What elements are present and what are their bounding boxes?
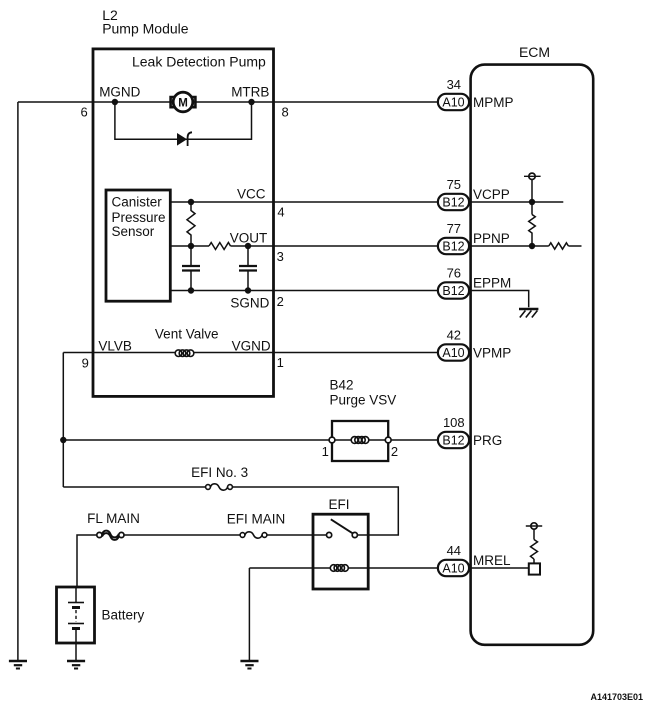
wire: EFI No.3 line — [63, 487, 398, 535]
svg-text:EFI: EFI — [328, 497, 349, 512]
svg-text:EFI MAIN: EFI MAIN — [227, 512, 286, 527]
node MGND junction — [112, 99, 118, 105]
svg-text:Sensor: Sensor — [112, 224, 155, 239]
ground G2 relay coil — [240, 661, 258, 669]
node SGND right junction — [245, 287, 251, 293]
fusible link FL MAIN — [97, 531, 124, 540]
node MTRB junction — [248, 99, 254, 105]
connector 44 A10 MREL — [438, 543, 511, 576]
resistor R4 PPNP series — [549, 243, 569, 249]
svg-text:B12: B12 — [442, 195, 464, 209]
capacitor C1 — [182, 246, 200, 291]
svg-text:B12: B12 — [442, 239, 464, 253]
wire: left ground riser — [17, 102, 19, 661]
wire: MREL internal — [471, 567, 529, 569]
svg-text:VCC: VCC — [237, 187, 266, 202]
node SGND left junction — [188, 287, 194, 293]
wire: battery feed to relay — [77, 535, 327, 587]
svg-text:A141703E01: A141703E01 — [590, 692, 643, 702]
node VCC junction — [188, 199, 194, 205]
wire: relay coil line — [249, 567, 438, 569]
power terminal at MREL — [526, 523, 542, 529]
relay EFI box — [313, 514, 368, 589]
svg-text:108: 108 — [443, 415, 465, 430]
wire VOUT — [170, 245, 438, 247]
wire VLVB-VGND vent valve line — [63, 352, 438, 354]
svg-text:VGND: VGND — [232, 339, 271, 354]
svg-text:EFI No. 3: EFI No. 3 — [191, 465, 248, 480]
svg-text:B42: B42 — [330, 378, 354, 393]
svg-text:44: 44 — [447, 543, 461, 558]
svg-text:A10: A10 — [442, 95, 464, 109]
svg-text:Purge VSV: Purge VSV — [330, 392, 397, 407]
node VOUT left junction — [188, 243, 194, 249]
svg-text:EPPM: EPPM — [473, 276, 511, 291]
ground G1 left riser — [9, 661, 27, 669]
svg-text:3: 3 — [277, 249, 284, 264]
canister pressure sensor box — [106, 190, 170, 301]
capacitor C2 — [239, 246, 257, 291]
motor M leak detection pump — [171, 92, 196, 112]
svg-text:2: 2 — [277, 294, 284, 309]
wire VCC — [170, 201, 438, 203]
driver element square at MREL — [529, 563, 540, 574]
resistor R3 ECM pull-up — [529, 215, 536, 247]
node VOUT right junction — [245, 243, 251, 249]
node VCPP junction — [529, 199, 535, 205]
fuse EFI No.3 — [206, 484, 233, 490]
svg-text:75: 75 — [447, 177, 461, 192]
wire: diode bypass loop MGND to MTRB — [115, 102, 252, 139]
wire: VCPP internal — [471, 180, 564, 215]
svg-text:1: 1 — [322, 444, 329, 459]
resistor R1 sensor pull-up — [187, 202, 195, 246]
svg-text:34: 34 — [447, 77, 461, 92]
wire: EPPM internal to signal ground — [471, 291, 529, 308]
connector 76 B12 EPPM — [438, 266, 511, 299]
ECM box — [471, 65, 594, 645]
wire: purge VSV line to ECM — [63, 439, 438, 441]
resistor R5 MREL pull-up — [531, 540, 538, 560]
svg-text:MTRB: MTRB — [231, 84, 269, 99]
svg-text:FL MAIN: FL MAIN — [87, 511, 140, 526]
svg-text:A10: A10 — [442, 346, 464, 360]
fuse EFI MAIN — [240, 532, 267, 538]
svg-text:42: 42 — [447, 328, 461, 343]
relay switch blade — [331, 519, 353, 533]
connector 108 B12 PRG — [438, 415, 502, 448]
svg-text:MPMP: MPMP — [473, 95, 514, 110]
connector 77 B12 PPNP — [438, 221, 510, 254]
svg-text:VCPP: VCPP — [473, 187, 510, 202]
svg-text:B12: B12 — [442, 433, 464, 447]
svg-text:77: 77 — [447, 221, 461, 236]
ground G3 battery — [67, 661, 85, 669]
svg-text:Leak Detection Pump: Leak Detection Pump — [132, 54, 266, 70]
terminal pin 1 purge VSV — [329, 437, 335, 443]
label Canister Pressure Sensor — [112, 194, 166, 239]
svg-text:Pressure: Pressure — [112, 210, 166, 225]
battery B1 — [57, 587, 95, 661]
svg-text:76: 76 — [447, 266, 461, 281]
resistor R2 series VOUT — [209, 243, 231, 250]
inductor L1 vent valve coil — [175, 350, 194, 357]
svg-text:6: 6 — [80, 104, 87, 119]
diode D1 — [177, 132, 192, 146]
svg-text:M: M — [178, 97, 188, 109]
pump module box L2 — [93, 49, 274, 397]
relay switch contact right — [352, 532, 357, 537]
svg-text:PPNP: PPNP — [473, 231, 510, 246]
svg-text:Vent Valve: Vent Valve — [155, 327, 219, 342]
svg-text:VOUT: VOUT — [230, 230, 268, 245]
svg-text:VLVB: VLVB — [98, 339, 132, 354]
wire: relay coil ground drop — [248, 568, 250, 661]
svg-text:MREL: MREL — [473, 553, 511, 568]
relay switch contact left — [327, 532, 332, 537]
svg-text:MGND: MGND — [99, 84, 140, 99]
connector 42 A10 VPMP — [438, 328, 511, 361]
connector 34 A10 MPMP — [438, 77, 514, 110]
svg-text:SGND: SGND — [230, 295, 269, 310]
connector 75 B12 VCPP — [438, 177, 510, 210]
svg-text:ECM: ECM — [519, 44, 550, 60]
svg-text:VPMP: VPMP — [473, 345, 511, 360]
svg-text:B12: B12 — [442, 284, 464, 298]
node PPNP junction — [529, 243, 535, 249]
signal ground at EPPM — [519, 309, 538, 318]
node purge branch junction — [60, 437, 66, 443]
svg-text:9: 9 — [82, 356, 89, 371]
wire: PPNP internal — [471, 245, 582, 247]
wire: purge feed riser — [62, 353, 64, 488]
wire: MREL pull-up — [533, 529, 535, 563]
label L2 Pump Module — [102, 7, 189, 37]
wire: main MPMP line from left riser to ECM — [18, 101, 438, 103]
svg-text:1: 1 — [277, 355, 284, 370]
wire SGND — [170, 290, 438, 292]
inductor relay coil — [330, 565, 348, 572]
svg-text:4: 4 — [277, 204, 284, 219]
svg-text:A10: A10 — [442, 561, 464, 575]
terminal pin 2 purge VSV — [385, 437, 391, 443]
purge VSV B42 box — [332, 421, 388, 461]
svg-text:8: 8 — [281, 105, 288, 120]
svg-text:Pump Module: Pump Module — [102, 21, 189, 37]
inductor L2 purge VSV coil — [351, 437, 369, 444]
svg-text:PRG: PRG — [473, 433, 502, 448]
label B42 Purge VSV — [330, 378, 397, 408]
svg-text:Battery: Battery — [102, 607, 145, 622]
power terminal at VCPP — [524, 173, 541, 179]
svg-text:Canister: Canister — [112, 194, 163, 209]
svg-text:2: 2 — [391, 444, 398, 459]
